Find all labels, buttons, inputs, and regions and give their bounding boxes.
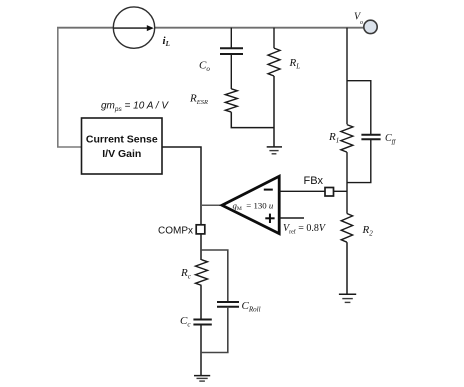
wire Cff bracket bottom bbox=[347, 139, 371, 182]
current source I1 (inductor current) bbox=[113, 7, 154, 48]
wire RESR bottom to RL branch bbox=[231, 112, 274, 128]
wire COMPx to Rc bbox=[200, 234, 202, 260]
wire Cc to ground bbox=[200, 325, 202, 376]
wire top rail bbox=[57, 27, 364, 29]
svg-text:I/V Gain: I/V Gain bbox=[102, 148, 141, 160]
svg-text:COMPx: COMPx bbox=[158, 226, 193, 237]
svg-text:gmps = 10 A / V: gmps = 10 A / V bbox=[101, 101, 169, 114]
svg-text:Current Sense: Current Sense bbox=[86, 134, 158, 146]
wire from box output to COMPx node bbox=[162, 147, 201, 225]
svg-text:RL: RL bbox=[289, 57, 301, 71]
svg-text:iL: iL bbox=[163, 35, 170, 48]
svg-text:Cff: Cff bbox=[385, 133, 396, 146]
svg-text:CRoll: CRoll bbox=[242, 300, 261, 314]
svg-text:R2: R2 bbox=[362, 224, 374, 238]
resistor RESR bbox=[225, 89, 237, 112]
capacitor Cff bbox=[361, 135, 380, 139]
svg-text:R1: R1 bbox=[328, 131, 339, 145]
wire CRoll branch bbox=[201, 250, 228, 302]
wire Vref stub to plus input bbox=[279, 217, 304, 219]
resistor R1 bbox=[341, 125, 353, 153]
capacitor Co bbox=[220, 48, 243, 54]
wire Co branch from rail bbox=[230, 28, 232, 49]
svg-text:FBx: FBx bbox=[304, 175, 324, 187]
wire Cff bracket top bbox=[347, 81, 371, 135]
wire RL to ground bbox=[273, 76, 275, 147]
resistor RL bbox=[268, 48, 280, 76]
svg-text:Rc: Rc bbox=[180, 267, 192, 281]
wire CRoll bottom to main branch bbox=[201, 307, 228, 353]
node COMPx bbox=[196, 225, 205, 234]
wire Rc to Cc bbox=[200, 285, 202, 319]
wire Co to RESR bbox=[230, 54, 232, 89]
ground G2 bbox=[339, 294, 356, 302]
wire left vertical from top rail to current-sense box bbox=[58, 28, 81, 147]
wire FBx to right rail bbox=[334, 190, 348, 192]
op-amp U2 gm error amplifier bbox=[222, 176, 279, 233]
resistor Rc bbox=[196, 260, 208, 286]
wire op-amp output bbox=[201, 204, 222, 206]
svg-text:Vref = 0.8V: Vref = 0.8V bbox=[283, 223, 327, 236]
terminal Vo bbox=[364, 20, 377, 33]
wire rail R1 to FBx junction bbox=[346, 152, 348, 213]
node FBx bbox=[325, 188, 334, 197]
wire FBx from op-amp minus input bbox=[279, 190, 325, 192]
svg-text:Co: Co bbox=[199, 60, 210, 74]
wire right rail from top bbox=[346, 28, 348, 125]
resistor R2 bbox=[341, 214, 352, 243]
block U1 Current Sense I/V Gain bbox=[82, 118, 163, 174]
wire R2 to ground bbox=[346, 242, 348, 294]
svg-text:RESR: RESR bbox=[189, 93, 208, 107]
ground G3 bbox=[194, 376, 210, 382]
capacitor CRoll bbox=[217, 302, 239, 307]
capacitor Cc bbox=[193, 320, 211, 325]
svg-text:Cc: Cc bbox=[180, 315, 191, 329]
ground G1 bbox=[267, 147, 282, 154]
wire RL branch from rail bbox=[273, 28, 275, 48]
svg-text:o: o bbox=[360, 20, 363, 26]
